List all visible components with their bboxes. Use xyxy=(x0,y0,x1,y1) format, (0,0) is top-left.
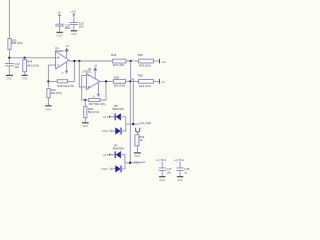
power -5 flag U2 bottom xyxy=(93,94,100,99)
svg-text:GNDA: GNDA xyxy=(101,167,109,171)
svg-text:+5: +5 xyxy=(57,10,61,14)
wire R16 to ground xyxy=(47,98,49,105)
svg-text:GND: GND xyxy=(22,77,28,81)
wire C17 to ground xyxy=(161,171,163,176)
wire node to R29 xyxy=(84,100,86,106)
node row1 clamp tap xyxy=(129,60,131,62)
wire CH_Low node to port xyxy=(125,162,140,164)
svg-text:BAS70W: BAS70W xyxy=(113,107,124,111)
svg-text:BAS70W: BAS70W xyxy=(113,146,124,150)
wire to C18 xyxy=(179,162,181,168)
resistor R30 xyxy=(139,59,154,63)
wire U1 out down to U2 plus input xyxy=(79,61,84,87)
wire main input to U1 xyxy=(9,57,55,59)
svg-text:GND: GND xyxy=(71,32,77,36)
op-amp U1 xyxy=(54,51,70,69)
supply +2.5 arrow cluster2 xyxy=(103,153,109,157)
svg-text:GND: GND xyxy=(177,178,183,182)
capacitor C16 xyxy=(70,10,76,14)
resistor R26 xyxy=(113,59,126,63)
wire to C17 xyxy=(161,162,163,168)
svg-text:-In: -In xyxy=(161,80,165,84)
svg-text:562 (1%): 562 (1%) xyxy=(88,110,99,114)
wire GNDA to diode D7b xyxy=(111,168,116,170)
label R32 xyxy=(138,74,151,88)
svg-text:+5: +5 xyxy=(94,63,98,67)
wire U1 V+ pin xyxy=(66,52,68,59)
port pin -In xyxy=(159,79,161,84)
node CH_High junction xyxy=(132,123,134,125)
svg-text:1n: 1n xyxy=(184,170,187,174)
ground under R29 xyxy=(82,122,89,124)
wire input from top xyxy=(8,0,10,39)
svg-text:CH_Low: CH_Low xyxy=(134,160,146,164)
wire U2 V- pin xyxy=(97,83,99,94)
supply +2.5 arrow upper cluster1 xyxy=(103,115,109,119)
svg-text:GND: GND xyxy=(57,34,63,38)
svg-text:+2_5Vd: +2_5Vd xyxy=(156,158,166,162)
svg-text:LT6202: LT6202 xyxy=(82,70,91,74)
wire R27 to U2 output xyxy=(100,81,106,100)
capacitor C17 xyxy=(159,168,166,171)
wire D5b to CH_High node xyxy=(120,124,126,131)
wire R31 to ground xyxy=(136,146,138,152)
svg-text:+5: +5 xyxy=(65,44,69,48)
port CH_High xyxy=(140,121,152,125)
op-amp U2 xyxy=(84,74,100,90)
wire node to R24 xyxy=(24,58,26,60)
svg-text:+In: +In xyxy=(161,60,165,64)
svg-text:GND: GND xyxy=(159,178,165,182)
wire U1 V- pin xyxy=(66,62,68,71)
diode D7b (points right, cathode bar right) xyxy=(115,165,120,172)
resistor R16 xyxy=(47,88,50,97)
wire D7b to CH_Low node xyxy=(120,163,125,169)
wire R32 to port xyxy=(153,80,159,82)
label R29 xyxy=(88,107,99,114)
svg-text:R30: R30 xyxy=(138,53,143,57)
wire row1 tap down to CH_High node xyxy=(131,61,134,124)
node U1 out to U2 tap xyxy=(78,60,80,62)
node CH_Low junction xyxy=(129,162,131,164)
ground under R24 xyxy=(22,74,28,76)
net label +2_5VA cap C18 xyxy=(174,158,184,162)
svg-text:GND: GND xyxy=(6,77,12,81)
svg-text:10n: 10n xyxy=(15,65,20,69)
svg-text:+2.5: +2.5 xyxy=(103,153,109,157)
wire R24 to ground xyxy=(24,72,26,75)
svg-text:GNDA: GNDA xyxy=(102,129,110,133)
svg-text:562 (1%): 562 (1%) xyxy=(114,84,125,88)
testpoint pin U$1 xyxy=(136,128,140,132)
wire U1 output xyxy=(69,60,112,62)
wire R30 to port xyxy=(153,60,159,62)
label R28 xyxy=(114,75,125,87)
wire R26 to R30 xyxy=(126,60,139,62)
label U2 xyxy=(82,67,91,74)
svg-text:GND: GND xyxy=(45,108,51,112)
label R25 xyxy=(57,84,74,88)
wire U2 output row xyxy=(100,80,114,82)
resistor R29 xyxy=(84,106,87,117)
wire D5a to CH_High node xyxy=(120,117,126,124)
resistor R25 xyxy=(57,80,67,83)
resistor R28 xyxy=(114,79,126,83)
svg-text:49.9 (1%): 49.9 (1%) xyxy=(113,63,125,67)
svg-text:562 (1%): 562 (1%) xyxy=(51,91,62,95)
label R16 xyxy=(51,88,62,95)
wire C13 to ground xyxy=(8,66,10,75)
label R15 value xyxy=(12,38,23,45)
wire R28 to R32 xyxy=(126,80,139,82)
svg-text:49.9 (1%): 49.9 (1%) xyxy=(139,63,151,67)
wire +2.5 to diode D7a xyxy=(112,154,116,156)
svg-text:R28: R28 xyxy=(114,75,119,79)
wire C18 to ground xyxy=(179,171,181,176)
svg-text:CH_High: CH_High xyxy=(140,121,152,125)
svg-text:R32: R32 xyxy=(138,74,143,78)
diode D7a (points left, cathode bar left) xyxy=(114,151,116,158)
svg-text:10n: 10n xyxy=(79,25,84,29)
svg-text:GND: GND xyxy=(82,124,88,128)
power -5 flag U1 bottom xyxy=(61,71,68,75)
ground under C17 xyxy=(159,176,165,178)
label D5 xyxy=(113,104,124,111)
port pin +In xyxy=(159,59,161,64)
node input junction xyxy=(8,57,10,59)
node U1 out feedback tap xyxy=(73,60,75,62)
resistor R31 xyxy=(135,135,139,146)
net label +2_5Vd cap C17 xyxy=(156,158,166,162)
diode D5a (points left, cathode bar left) xyxy=(114,113,116,120)
node U2 out feedback tap xyxy=(105,80,107,82)
label R24 xyxy=(27,60,39,68)
wire U1 plus input to feedback node xyxy=(48,65,53,87)
svg-text:R25 100 (1%): R25 100 (1%) xyxy=(57,84,74,88)
wire R29 to ground xyxy=(84,118,86,122)
diode D5b (points right, cathode bar right) xyxy=(115,127,120,134)
svg-text:GND: GND xyxy=(134,154,140,158)
node feedback U1 xyxy=(47,80,49,82)
svg-text:+2.5: +2.5 xyxy=(70,10,76,14)
svg-text:100n: 100n xyxy=(65,26,71,30)
svg-text:+2.5: +2.5 xyxy=(103,115,109,119)
wire R25 to U1 output xyxy=(68,61,75,81)
node R24 junction xyxy=(24,57,26,59)
power +5 flag U2 top xyxy=(93,67,97,71)
ground under C18 xyxy=(177,176,183,178)
capacitor C15 xyxy=(57,10,61,14)
resistor R15 xyxy=(8,39,11,50)
wire R15 to input node xyxy=(8,49,10,58)
ground under R31 xyxy=(134,152,141,154)
label R27 xyxy=(89,102,106,106)
label C13 xyxy=(15,62,20,69)
wire +2.5 to diode D5a xyxy=(112,116,116,118)
label U1 xyxy=(55,46,64,53)
resistor R32 xyxy=(139,79,154,83)
ground under C16 xyxy=(71,30,77,32)
wire feedback node to R25 xyxy=(48,80,57,82)
resistor R24 xyxy=(23,60,27,72)
port CH_Low xyxy=(134,160,146,164)
svg-text:R27 562 (1%): R27 562 (1%) xyxy=(89,102,106,106)
svg-text:10n: 10n xyxy=(167,170,172,174)
label R31 xyxy=(139,135,144,142)
wire row2 tap down to CH_Low node xyxy=(129,81,131,162)
capacitor C18 xyxy=(177,168,184,171)
wire CH_High node to port xyxy=(126,123,140,125)
svg-text:R24: R24 xyxy=(27,60,32,64)
GNDA flag cluster2 xyxy=(101,167,109,171)
wire GNDA to diode D5b xyxy=(111,130,116,132)
ground under C13 xyxy=(6,74,13,76)
ground under C15 xyxy=(56,31,62,33)
label D7 xyxy=(113,144,124,151)
ground under R16 xyxy=(45,105,51,107)
svg-text:LT6202: LT6202 xyxy=(55,49,64,53)
wire node to C13 xyxy=(8,58,10,63)
resistor R27 xyxy=(89,98,100,101)
svg-text:R26: R26 xyxy=(111,53,116,57)
power +5 flag U1 top xyxy=(65,48,70,52)
wire pin to R31 xyxy=(137,132,139,135)
node R29 tap xyxy=(84,99,86,101)
label R30 xyxy=(138,53,151,67)
GNDA flag cluster1 xyxy=(102,129,110,133)
svg-text:562 (1%): 562 (1%) xyxy=(12,41,23,45)
label R26 xyxy=(111,53,124,67)
node row2 clamp tap xyxy=(129,80,131,82)
svg-text:49.9 (1%): 49.9 (1%) xyxy=(27,63,39,67)
wire U2 V+ pin xyxy=(94,70,96,79)
svg-text:+2_5VA: +2_5VA xyxy=(174,158,184,162)
wire U2 minus input to R27 xyxy=(82,76,88,100)
wire D7a to CH_Low node xyxy=(120,155,125,163)
svg-text:49.9 (1%): 49.9 (1%) xyxy=(139,84,151,88)
capacitor C13 xyxy=(5,64,14,66)
